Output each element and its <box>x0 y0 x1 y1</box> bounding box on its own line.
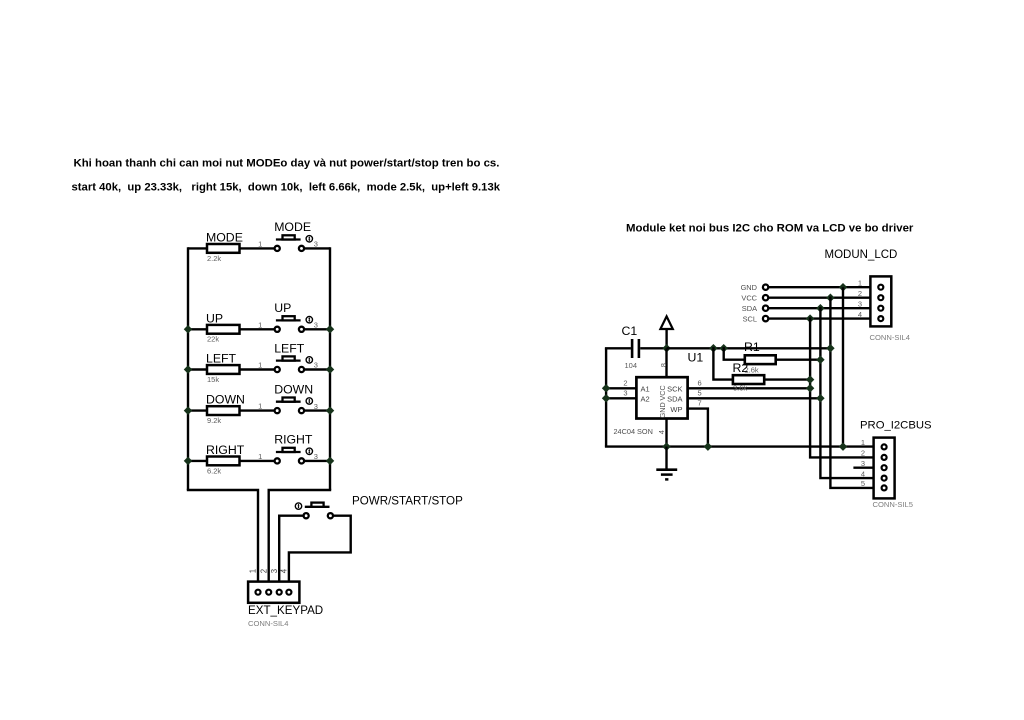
U1 pin 6 wire SCK <box>688 387 811 389</box>
junction right rail row LEFT <box>326 365 334 373</box>
svg-text:1: 1 <box>258 320 262 329</box>
wire GND bus vertical <box>842 287 844 446</box>
svg-text:GND: GND <box>658 402 667 418</box>
wire SDA to LCD connector pin 3 <box>769 307 871 309</box>
push button RIGHT actuator symbol <box>306 448 312 454</box>
wire POWR right contact to pin 4 <box>289 516 351 582</box>
U1 pin 4 wire GND <box>665 419 667 447</box>
junction VCC bus <box>826 344 834 352</box>
MODUN_LCD pin <box>878 306 883 311</box>
wire rail to resistor UP <box>188 328 207 330</box>
PRO_I2CBUS pin 4 <box>882 476 887 481</box>
U1 pin 3 wire A2 <box>606 397 636 399</box>
svg-text:DOWN: DOWN <box>206 393 245 407</box>
svg-text:1: 1 <box>258 402 262 411</box>
svg-text:9.2k: 9.2k <box>207 416 221 425</box>
junction right rail row DOWN <box>326 406 334 414</box>
wire VCC to LCD connector pin 2 <box>769 297 871 299</box>
wire rail to resistor DOWN <box>188 409 207 411</box>
junction R2 to SCL bus <box>806 375 814 383</box>
svg-text:RIGHT: RIGHT <box>274 433 313 447</box>
IC U1 24C04 body <box>636 377 687 418</box>
push button RIGHT contact pins <box>275 458 280 463</box>
wire POWR left contact to pin 3 <box>279 516 303 582</box>
ground symbol <box>665 447 667 470</box>
push button LEFT actuator symbol <box>306 357 312 363</box>
junction GND tap <box>839 283 847 291</box>
junction left rail row LEFT <box>184 365 192 373</box>
svg-text:6: 6 <box>698 378 702 387</box>
svg-text:4: 4 <box>858 310 862 319</box>
wire button LEFT to right rail <box>305 368 330 370</box>
svg-text:15k: 15k <box>207 375 219 384</box>
svg-text:6.2k: 6.2k <box>207 466 221 475</box>
push button MODE bar <box>276 238 301 240</box>
connector PRO_I2CBUS body <box>874 438 895 499</box>
svg-text:CONN-SIL5: CONN-SIL5 <box>873 500 914 509</box>
svg-text:GND: GND <box>741 283 757 292</box>
U1 pin 2 wire A1 <box>606 387 636 389</box>
MODUN_LCD pin <box>878 285 883 290</box>
svg-text:Module ket noi bus I2C cho ROM: Module ket noi bus I2C cho ROM va LCD ve… <box>626 223 914 235</box>
svg-text:CONN-SIL4: CONN-SIL4 <box>248 619 289 628</box>
svg-text:24C04 SON: 24C04 SON <box>614 427 653 436</box>
svg-text:4: 4 <box>280 568 289 573</box>
svg-text:PRO_I2CBUS: PRO_I2CBUS <box>860 420 932 432</box>
svg-text:MODE: MODE <box>274 220 311 234</box>
svg-text:4: 4 <box>657 430 666 434</box>
wire button DOWN to right rail <box>305 409 330 411</box>
svg-text:8: 8 <box>659 363 668 367</box>
svg-text:EXT_KEYPAD: EXT_KEYPAD <box>248 604 323 617</box>
wire SCL bus vertical to PRO pin 2 <box>810 319 874 458</box>
EXT_KEYPAD pin 4 <box>286 590 291 595</box>
junction SCK to SCL bus <box>806 384 814 392</box>
svg-text:SDA: SDA <box>742 304 757 313</box>
terminal VCC <box>763 295 768 300</box>
resistor R2 3.6k <box>713 348 733 379</box>
wire rail to resistor MODE <box>188 247 207 249</box>
push button DOWN actuator symbol <box>306 398 312 404</box>
wire resistor RIGHT to button pin 1 <box>240 460 275 462</box>
terminal SCL <box>763 316 768 321</box>
junction GND bus <box>839 442 847 450</box>
power symbol VCC arrow <box>665 329 667 348</box>
junction WP <box>704 442 712 450</box>
connector MODUN_LCD body <box>870 276 891 326</box>
resistor DOWN 9.2k <box>207 406 240 415</box>
svg-text:CONN-SIL4: CONN-SIL4 <box>870 333 911 342</box>
svg-text:A2: A2 <box>641 395 650 404</box>
wire VCC bus vertical to PRO pin 5 <box>830 298 873 488</box>
push button UP actuator symbol <box>306 317 312 323</box>
svg-text:SCL: SCL <box>743 314 757 323</box>
svg-text:2.2k: 2.2k <box>207 254 221 263</box>
wire button RIGHT to right rail <box>305 460 330 462</box>
wire rail to resistor LEFT <box>188 368 207 370</box>
junction R1 to SDA bus <box>816 355 824 363</box>
push button UP contact pins <box>275 327 280 332</box>
junction left rail row DOWN <box>184 406 192 414</box>
svg-text:4: 4 <box>861 469 865 478</box>
junction A2 left rail <box>602 394 610 402</box>
junction left rail row UP <box>184 325 192 333</box>
svg-text:U1: U1 <box>688 351 704 365</box>
wire VCC rail <box>667 347 831 349</box>
resistor UP 22k <box>207 325 240 334</box>
wire SCL to LCD connector pin 4 <box>769 317 871 319</box>
resistor RIGHT 6.2k <box>207 457 240 466</box>
wire button MODE to right rail <box>305 247 330 249</box>
U1 pin 5 wire SDA <box>688 397 821 399</box>
push button POWR/START/STOP bar <box>305 506 330 508</box>
wire button UP to right rail <box>305 328 330 330</box>
svg-text:WP: WP <box>670 405 682 414</box>
U1 pin 7 wire WP <box>688 409 708 447</box>
svg-text:1: 1 <box>258 239 262 248</box>
PRO_I2CBUS pin 2 <box>882 455 887 460</box>
junction right rail row RIGHT <box>326 457 334 465</box>
svg-text:SDA: SDA <box>667 395 682 404</box>
svg-text:5: 5 <box>698 388 702 397</box>
svg-text:3.6k: 3.6k <box>733 384 747 393</box>
svg-text:RIGHT: RIGHT <box>206 443 245 457</box>
wire capacitor C1 to VCC rail <box>640 347 666 349</box>
wire PRO pin 3 stub <box>853 467 873 469</box>
push button RIGHT bar <box>276 451 301 453</box>
svg-text:2: 2 <box>861 449 865 458</box>
svg-text:7: 7 <box>698 399 702 408</box>
push button DOWN contact pins <box>275 408 280 413</box>
svg-text:VCC: VCC <box>741 293 757 302</box>
terminal SDA <box>763 306 768 311</box>
wire to capacitor C1 <box>605 347 631 349</box>
push button DOWN bar <box>276 401 301 403</box>
EXT_KEYPAD pin 1 <box>256 590 261 595</box>
PRO_I2CBUS pin 1 <box>882 444 887 449</box>
svg-text:5: 5 <box>861 479 865 488</box>
wire resistor MODE to button pin 1 <box>240 247 275 249</box>
svg-text:VCC: VCC <box>658 385 667 400</box>
PRO_I2CBUS pin 3 <box>882 465 887 470</box>
svg-text:1: 1 <box>861 438 865 447</box>
svg-text:R2: R2 <box>733 361 749 375</box>
svg-text:LEFT: LEFT <box>274 341 305 355</box>
svg-text:DOWN: DOWN <box>274 382 313 396</box>
wire left rail <box>187 247 189 490</box>
wire left rail U1 block <box>605 348 607 446</box>
svg-text:start 40k, up 23.33k, right: start 40k, up 23.33k, right 15k, down 10… <box>72 182 501 194</box>
wire GND rail bottom <box>605 445 874 447</box>
junction VCC at C1 <box>662 344 670 352</box>
junction SDA to SDA bus <box>816 394 824 402</box>
wire rail to resistor RIGHT <box>188 460 207 462</box>
junction left rail row RIGHT <box>184 457 192 465</box>
MODUN_LCD pin <box>878 316 883 321</box>
svg-text:R1: R1 <box>744 340 760 354</box>
svg-text:3: 3 <box>623 389 627 398</box>
wire SDA bus vertical to PRO pin 4 <box>820 308 873 478</box>
push button MODE actuator symbol <box>306 236 312 242</box>
svg-text:1: 1 <box>249 569 258 573</box>
svg-text:3: 3 <box>270 569 279 573</box>
wire GND to LCD connector pin 1 <box>769 286 871 288</box>
connector J1 EXT_KEYPAD <box>248 582 299 603</box>
svg-text:22k: 22k <box>207 335 219 344</box>
push button POWR/START/STOP actuator symbol <box>295 503 301 509</box>
MODUN_LCD pin <box>878 295 883 300</box>
junction SDA tap <box>816 304 824 312</box>
svg-text:1: 1 <box>258 361 262 370</box>
resistor LEFT 15k <box>207 365 240 374</box>
svg-text:A1: A1 <box>641 385 650 394</box>
EXT_KEYPAD pin 3 <box>277 590 282 595</box>
wire right rail bottom to pin 2 <box>269 490 330 582</box>
svg-text:2: 2 <box>259 569 268 573</box>
resistor R1 2.6k <box>724 348 745 359</box>
junction SCL tap <box>806 314 814 322</box>
svg-text:Khi hoan thanh chi can moi nut: Khi hoan thanh chi can moi nut MODEo day… <box>74 158 500 170</box>
svg-text:SCK: SCK <box>667 385 682 394</box>
svg-text:LEFT: LEFT <box>206 352 237 366</box>
wire resistor UP to button pin 1 <box>240 328 275 330</box>
junction U1 GND <box>662 442 670 450</box>
capacitor C1 <box>631 339 634 358</box>
wire resistor DOWN to button pin 1 <box>240 409 275 411</box>
svg-text:MODUN_LCD: MODUN_LCD <box>825 249 898 261</box>
resistor MODE 2.2k <box>207 244 240 253</box>
svg-text:MODE: MODE <box>206 231 243 245</box>
wire resistor LEFT to button pin 1 <box>240 368 275 370</box>
svg-text:2: 2 <box>623 379 627 388</box>
junction VCC tap <box>826 293 834 301</box>
svg-text:C1: C1 <box>622 324 638 338</box>
push button UP bar <box>276 319 301 321</box>
svg-text:2: 2 <box>858 289 862 298</box>
push button LEFT bar <box>276 359 301 361</box>
push button MODE contact pins <box>275 246 280 251</box>
terminal GND <box>763 285 768 290</box>
svg-text:1: 1 <box>858 278 862 287</box>
PRO_I2CBUS pin 5 <box>882 485 887 490</box>
svg-text:1: 1 <box>258 452 262 461</box>
junction A1 left rail <box>602 384 610 392</box>
svg-text:POWR/START/STOP: POWR/START/STOP <box>352 495 463 508</box>
push button LEFT contact pins <box>275 367 280 372</box>
wire right rail <box>329 247 331 490</box>
svg-text:104: 104 <box>625 361 638 370</box>
push button POWR/START/STOP contact pins <box>304 513 309 518</box>
junction right rail row UP <box>326 325 334 333</box>
wire left rail bottom to pin 1 <box>188 490 258 582</box>
svg-text:3: 3 <box>858 299 862 308</box>
junction R2 tap <box>709 344 717 352</box>
junction R1 tap <box>719 344 727 352</box>
wire U1 pin 8 VCC <box>665 348 667 377</box>
svg-text:UP: UP <box>274 301 291 315</box>
EXT_KEYPAD pin 2 <box>266 590 271 595</box>
svg-text:UP: UP <box>206 311 223 325</box>
